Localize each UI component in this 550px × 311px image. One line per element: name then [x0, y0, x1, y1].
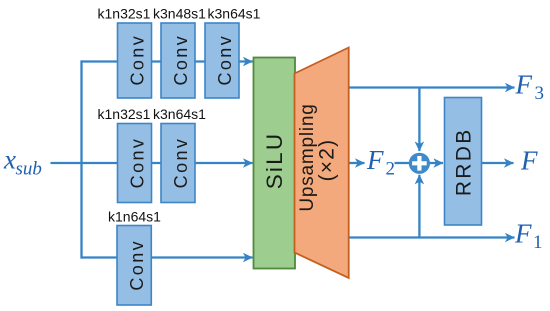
conv block row2-1: [118, 124, 152, 203]
wire: vertical from F3 line down into adder: [418, 88, 420, 152]
wire: adder to RRDB arrow: [430, 162, 444, 164]
adder node: [409, 153, 430, 174]
svg-text:k1n32s1: k1n32s1: [98, 6, 151, 22]
wire: F3 output line: [349, 86, 515, 88]
wire: RRDB to F arrow: [482, 162, 514, 164]
svg-text:sub: sub: [16, 159, 42, 180]
conv block row3-1: [117, 226, 151, 306]
svg-text:3: 3: [535, 83, 545, 104]
svg-text:SiLU: SiLU: [262, 132, 287, 190]
wire: top branch horizontal with arrow into SiLU: [82, 60, 253, 62]
svg-text:k1n64s1: k1n64s1: [108, 209, 161, 225]
wire: F2 stub arrow from trapezoid: [349, 162, 365, 164]
svg-text:Conv: Conv: [127, 137, 147, 189]
svg-text:k3n64s1: k3n64s1: [208, 6, 261, 22]
svg-text:k3n64s1: k3n64s1: [153, 106, 206, 122]
wire: F2 to adder: [395, 162, 410, 164]
svg-text:x: x: [3, 145, 16, 175]
svg-text:F: F: [520, 146, 538, 176]
conv block row1-2: [161, 23, 195, 98]
upsampling trapezoid: [295, 48, 349, 279]
wire: middle branch horizontal from x_sub with arrow into SiLU: [51, 162, 253, 164]
svg-text:k3n48s1: k3n48s1: [153, 6, 206, 22]
svg-text:(×2): (×2): [316, 139, 339, 182]
svg-text:1: 1: [533, 232, 543, 253]
svg-text:Conv: Conv: [171, 34, 191, 86]
wire: vertical from F1 line up into adder: [418, 175, 420, 238]
svg-text:F: F: [366, 145, 384, 175]
svg-text:Conv: Conv: [127, 239, 147, 291]
wire: bottom branch horizontal with arrow into SiLU: [82, 256, 253, 258]
svg-text:Conv: Conv: [127, 34, 147, 86]
RRDB block: [445, 98, 482, 226]
svg-text:Conv: Conv: [171, 137, 191, 189]
svg-text:F: F: [514, 219, 532, 249]
svg-text:RRDB: RRDB: [453, 127, 476, 196]
svg-text:Conv: Conv: [215, 34, 235, 86]
conv block row1-1: [118, 23, 152, 98]
wire: left branch vertical: [80, 60, 82, 258]
svg-text:k1n32s1: k1n32s1: [98, 106, 151, 122]
svg-text:F: F: [515, 70, 533, 100]
conv block row2-2: [161, 124, 195, 203]
svg-text:2: 2: [386, 159, 396, 180]
conv block row1-3: [205, 23, 239, 98]
SiLU block: [254, 58, 296, 269]
wire: F1 output line: [349, 236, 515, 238]
